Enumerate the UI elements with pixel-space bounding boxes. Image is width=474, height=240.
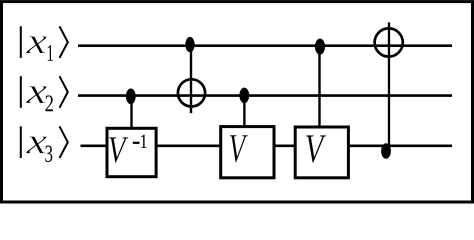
gate box V-1 superscript minus: [133, 142, 140, 144]
vertical wire control q1 to target q2 (CNOT): [190, 46, 192, 113]
gate box V-1 superscript 1: [141, 135, 147, 148]
control dot on q2 (gate 1): [126, 89, 136, 105]
ket label x3 letter: [26, 136, 47, 153]
wire q2: [78, 94, 452, 97]
ket label |x3> angle bracket: [60, 126, 68, 158]
ket label |x2> angle bracket: [60, 76, 68, 108]
ket label |x1> bar: [20, 26, 22, 58]
gate box V-1 letter V: [109, 137, 128, 163]
gate box V (third) on q3: [295, 127, 348, 178]
target XOR circle on q2: [178, 79, 205, 106]
gate box V (second) letter V: [230, 135, 248, 162]
gate box V (third) letter V: [306, 135, 326, 163]
target XOR circle on q1 (gate 5): [375, 28, 403, 56]
ket label subscript 3: [45, 146, 52, 162]
vertical wire control q1 to third V box: [318, 46, 320, 127]
vertical wire control q2 to second V box: [243, 95, 245, 127]
wire q1: [78, 44, 452, 47]
control dot on q3 (gate 5): [381, 143, 391, 159]
control dot on q1 (CNOT): [185, 37, 194, 52]
ket label |x1> angle bracket: [60, 26, 68, 58]
vertical wire control q2 to V-1 box: [130, 96, 132, 128]
ket label |x3> bar: [20, 126, 22, 158]
ket label subscript 1: [48, 45, 53, 61]
wire q3: [81, 145, 453, 148]
gate box V (second) on q3: [221, 127, 274, 178]
control dot on q1 (gate 4): [315, 39, 325, 55]
ket label x2 letter: [26, 86, 47, 103]
gate box V-1 on q3: [107, 128, 156, 176]
ket label x1 letter: [26, 36, 47, 53]
vertical wire target q1 to dot q3 (gate 5): [388, 22, 390, 150]
ket label subscript 2: [46, 95, 53, 111]
ket label |x2> bar: [20, 76, 22, 108]
control dot on q2 (gate 3): [239, 88, 249, 104]
